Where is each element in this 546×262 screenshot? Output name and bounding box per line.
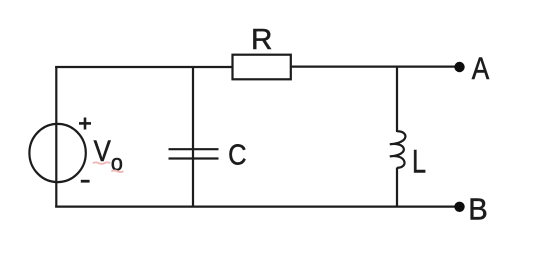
wire: bottom segment (left node to terminal B) (55, 206, 454, 208)
voltage source Vo (circle) (29, 124, 85, 182)
terminal node B (dot) (454, 202, 464, 212)
wire: capacitor branch vertical (192, 67, 194, 207)
svg-text:B: B (468, 193, 488, 227)
svg-text:R: R (251, 24, 272, 56)
wire: inductor branch bottom stub (396, 168, 398, 207)
resistor R (box) (233, 55, 291, 80)
spellcheck squiggle under o (111, 171, 123, 173)
svg-text:L: L (412, 143, 426, 179)
spellcheck squiggle under V (93, 162, 110, 164)
capacitor C (plates) (169, 149, 219, 158)
plus sign of source (79, 118, 91, 130)
svg-text:A: A (472, 50, 490, 86)
wire: top left segment (source top node to resistor) (55, 66, 233, 68)
wire: inductor branch top stub (396, 67, 398, 132)
wire: left vertical (through voltage source) (55, 66, 57, 208)
terminal node A (dot) (454, 62, 464, 72)
wire: top right segment (resistor to terminal A) (291, 65, 455, 67)
minus sign of source (81, 180, 90, 183)
svg-text:C: C (228, 139, 246, 171)
inductor L (coil) (390, 131, 406, 168)
